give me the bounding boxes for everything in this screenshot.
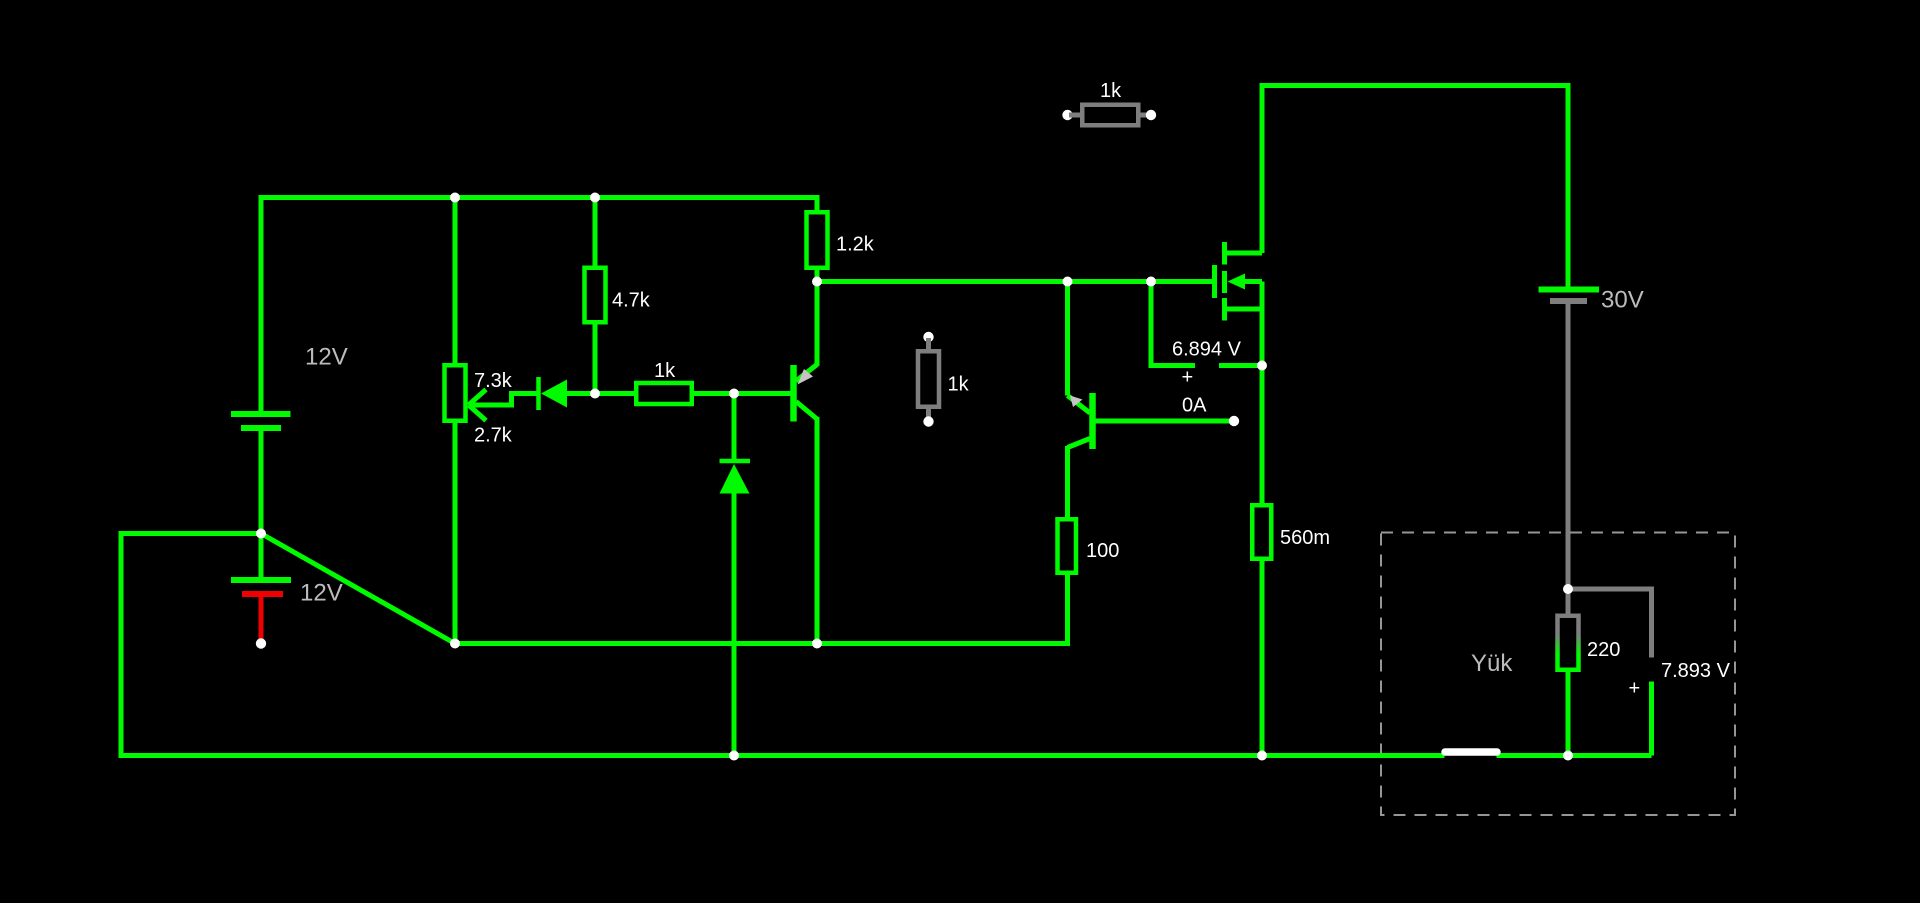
- battery V2 12V long plate: [231, 577, 291, 583]
- wire R8 left stub (gray): [1069, 113, 1082, 118]
- battery V3 30V short plate (gray): [1550, 298, 1587, 304]
- svg-text:30V: 30V: [1601, 287, 1644, 314]
- wire battery V3 bottom (gray): [1566, 304, 1571, 589]
- wire 1.2k bottom: [815, 269, 820, 282]
- node junction: [812, 277, 822, 287]
- svg-text:1k: 1k: [654, 360, 676, 382]
- svg-text:7.3k: 7.3k: [474, 370, 513, 392]
- node junction: [1563, 584, 1573, 594]
- mosfet M1 drain stub: [1227, 251, 1262, 256]
- svg-text:12V: 12V: [305, 344, 348, 371]
- node junction: [729, 389, 739, 399]
- node junction: [450, 193, 460, 203]
- node junction: [590, 389, 600, 399]
- svg-text:100: 100: [1086, 540, 1119, 562]
- svg-text:0A: 0A: [1182, 395, 1207, 417]
- voltmeter VM1 right lead: [1219, 363, 1262, 368]
- node junction: [1257, 751, 1267, 761]
- wire 1k right stub: [692, 391, 734, 396]
- wire 220 bottom stub: [1566, 670, 1571, 756]
- svg-text:7.893 V: 7.893 V: [1661, 660, 1731, 682]
- diode D1 triangle: [541, 380, 567, 408]
- battery V1 12V long plate: [231, 411, 291, 417]
- svg-text:12V: 12V: [300, 580, 343, 607]
- node junction: [450, 639, 460, 649]
- node junction: [1257, 361, 1267, 371]
- unconnected post battery V2: [256, 638, 266, 648]
- battery V1 12V short plate: [241, 425, 281, 431]
- mosfet M1 channel segment source: [1222, 298, 1227, 321]
- wire left down to bottom rail: [121, 534, 734, 756]
- svg-text:2.7k: 2.7k: [474, 425, 513, 447]
- wire diode D2 bottom: [732, 493, 737, 756]
- svg-text:Yük: Yük: [1471, 650, 1513, 677]
- potentiometer wiper arrow barb lower: [469, 405, 487, 421]
- node junction: [812, 639, 822, 649]
- potentiometer body 7.3k/2.7k: [445, 365, 466, 421]
- wire battery V2 top: [259, 534, 264, 579]
- resistor R7 220 body (gradient): [1558, 616, 1579, 670]
- wire Q2 base lead: [1095, 419, 1234, 424]
- wire diode D1 to node: [566, 391, 595, 396]
- wire diagonal: [261, 534, 455, 644]
- svg-text:6.894 V: 6.894 V: [1172, 339, 1242, 361]
- switch SW1 closed (white): [1445, 748, 1497, 756]
- wire Q1 base: [734, 391, 791, 396]
- wire R4 gray stub bottom: [926, 407, 931, 420]
- resistor R4 1k body (disconnected, gray): [918, 351, 939, 407]
- mosfet M1 body lead: [1244, 279, 1262, 284]
- svg-text:+: +: [1182, 367, 1194, 389]
- transistor Q2 base bar: [1089, 393, 1096, 449]
- wire bottom rail west: [734, 753, 1262, 758]
- wire R4 gray stub top: [926, 338, 931, 351]
- mosfet M1 channel segment body: [1222, 271, 1227, 293]
- node junction: [1063, 277, 1073, 287]
- transistor Q2 emitter diagonal: [1068, 396, 1091, 414]
- mosfet M1 gate bar: [1212, 265, 1217, 298]
- resistor R2 1k body: [636, 383, 692, 404]
- wire top-left loop: [261, 198, 817, 415]
- wire battery V1 bottom: [259, 431, 264, 534]
- diode D2 cathode bar: [720, 459, 751, 464]
- wire 100 bottom to left: [455, 573, 1068, 644]
- wire middle rail: [817, 279, 1214, 284]
- potentiometer wiper arrow barb upper: [469, 390, 487, 406]
- mosfet M1 body arrow: [1228, 274, 1246, 290]
- box Yük dashed border: [1381, 533, 1735, 816]
- battery V2 12V short plate (negative, red): [242, 591, 283, 597]
- wire Q2 collector down: [1065, 446, 1070, 519]
- wire 4.7k top: [593, 198, 598, 268]
- transistor Q2 collector diagonal: [1068, 439, 1091, 448]
- wire Yük node right (gray): [1568, 589, 1652, 658]
- wire R8 right stub (gray): [1138, 113, 1149, 118]
- voltmeter VM2 lower lead (green): [1649, 682, 1654, 756]
- transistor Q1 collector diagonal: [796, 402, 817, 420]
- transistor Q1 emitter arrow: [798, 369, 814, 385]
- svg-text:+: +: [1629, 678, 1641, 700]
- svg-text:220: 220: [1587, 639, 1620, 661]
- diode D1 cathode bar: [536, 377, 541, 410]
- mosfet M1 source stub: [1227, 307, 1262, 312]
- wire battery V2 bottom (red): [259, 597, 264, 641]
- wire Q1 collector down: [815, 417, 820, 644]
- wire Q1 emitter up: [815, 282, 820, 367]
- svg-text:1k: 1k: [1100, 80, 1122, 102]
- svg-text:1.2k: 1.2k: [836, 234, 875, 256]
- unconnected post R8 right: [1146, 110, 1156, 120]
- svg-text:560m: 560m: [1280, 527, 1330, 549]
- resistor R3 1.2k body: [807, 212, 828, 268]
- unconnected post R4 bottom: [923, 416, 933, 426]
- wire pot top: [453, 198, 458, 366]
- wire bottom rail east: [1262, 753, 1445, 758]
- svg-text:4.7k: 4.7k: [612, 290, 651, 312]
- wire pot bottom: [453, 423, 458, 644]
- wire mosfet source down: [1260, 282, 1265, 506]
- transistor Q1 base bar: [790, 365, 797, 422]
- resistor R6 560m body: [1252, 505, 1271, 559]
- voltmeter VM1 left lead: [1151, 282, 1195, 366]
- mosfet M1 channel segment drain: [1222, 242, 1227, 265]
- wire Q2 emitter up: [1065, 282, 1070, 396]
- wire pot wiper lead: [469, 394, 538, 406]
- wire diode D2 top: [732, 394, 737, 460]
- node junction: [256, 529, 266, 539]
- transistor Q1 emitter diagonal: [796, 365, 817, 382]
- node junction: [729, 751, 739, 761]
- wire 4.7k bottom: [593, 321, 598, 394]
- transistor Q2 emitter arrow: [1070, 396, 1083, 408]
- resistor R5 100 body: [1058, 519, 1077, 573]
- wire drain top loop: [1262, 86, 1568, 291]
- battery V3 30V long plate: [1539, 287, 1600, 293]
- node junction: [1146, 277, 1156, 287]
- resistor R8 1k body (disconnected, gray): [1082, 105, 1138, 126]
- unconnected post R8 left: [1062, 110, 1072, 120]
- wire 1k left stub: [595, 391, 636, 396]
- wire bottom rail in box: [1497, 753, 1652, 758]
- svg-text:1k: 1k: [948, 374, 970, 396]
- unconnected post Q2 base: [1229, 416, 1239, 426]
- wire 220 top stub (gray): [1566, 589, 1571, 616]
- node junction: [590, 193, 600, 203]
- diode D2 triangle: [720, 464, 750, 494]
- unconnected post R4 top: [923, 332, 933, 342]
- wire 560m bottom: [1260, 559, 1265, 756]
- node junction: [1563, 751, 1573, 761]
- resistor R1 4.7k body: [585, 268, 606, 323]
